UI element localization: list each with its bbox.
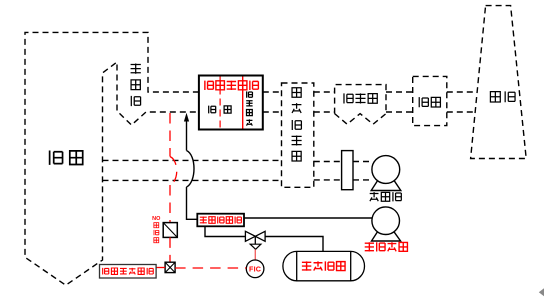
forced draft fan 送风机 <box>371 156 401 191</box>
wire combustion air line lower boiler->preheater <box>103 179 282 181</box>
label reactor-title-协同反应器 <box>205 81 259 90</box>
label dust-collector-text-除尘器 <box>344 93 377 103</box>
chimney 烟囱 dashed trapezoid <box>471 6 527 159</box>
boiler 锅炉 outline with economizer channel <box>25 32 199 285</box>
wire flue duct lower line reactor->preheater <box>263 111 282 113</box>
label reactor-text-硝 <box>224 106 231 113</box>
label desulfurizer-text-脱硫 <box>419 97 440 107</box>
reactor internal red dashed divider <box>219 77 221 129</box>
wire flue duct upper line preheater->dust-collector <box>314 91 335 93</box>
valve actuator triangle <box>250 244 261 249</box>
control valve <box>245 231 265 241</box>
wire red load-signal-box -> summer <box>156 267 165 269</box>
air preheater 空气预热器 dashed box <box>282 83 314 187</box>
label NOx-monitor-label-chars <box>154 223 159 243</box>
valve stem <box>254 236 256 244</box>
wire dilution fan -> mixer <box>244 217 373 219</box>
reactor 协同反应器 box <box>199 76 263 130</box>
label economizer-text-省煤器 <box>131 63 141 106</box>
wire flue duct lower line preheater->dust-collector <box>314 111 335 113</box>
signal summer square with X <box>165 262 175 272</box>
dilution fan 稀释风机 <box>372 207 401 241</box>
air damper rectangle <box>342 151 353 190</box>
wire flue duct upper line reactor->preheater <box>263 91 282 93</box>
label mixer-text-氨空混合器 <box>200 217 242 224</box>
wire air line preheater->damper upper <box>314 161 342 163</box>
wire flue duct lower line dust-collector->desulfurizer <box>386 111 413 113</box>
desulfurizer 脱硫 dashed box <box>413 76 447 125</box>
wire mixer outlet pipe up to duct with crossing hop <box>187 117 198 219</box>
wire valve -> tank riser <box>265 237 323 252</box>
wire flue duct upper line dust-collector->desulfurizer <box>386 91 413 93</box>
label fan-text-送风机 <box>370 192 402 201</box>
wire red summer -> FIC <box>175 267 246 269</box>
wire red monitor -> summer <box>169 237 171 262</box>
FIC flow controller circle <box>246 260 264 278</box>
wire air line damper->fan lower <box>353 179 373 181</box>
label tank-text-氨气储罐 <box>302 261 345 270</box>
label chimney-text-烟囱 <box>490 91 515 102</box>
label dilution-fan-text-稀释风机 <box>365 242 408 251</box>
wire mixer bottom port down <box>205 226 245 236</box>
svg-text:NO: NO <box>152 216 161 222</box>
boiler load signal 锅炉负载信号 box <box>100 265 157 279</box>
ammonia-air mixer 氨空混合器 box <box>197 214 244 227</box>
gray corner arrow <box>539 288 544 296</box>
wire flue duct upper line desulfurizer->chimney <box>447 91 477 93</box>
wire flue duct lower line desulfurizer->chimney <box>447 111 475 113</box>
reactor internal red solid divider <box>242 77 244 129</box>
wire red NOx sample line from duct down with hop <box>170 113 177 223</box>
label reactor-text-脱二噁英 <box>246 91 252 125</box>
svg-text:FIC: FIC <box>249 265 261 274</box>
label preheater-text-空气预热器 <box>292 88 302 161</box>
label boiler-text-锅炉 <box>50 151 83 165</box>
label load-signal-text-锅炉负载信号 <box>103 268 154 275</box>
dust collector 除尘器 dashed outline with two hoppers <box>335 85 386 125</box>
wire air line damper->fan upper <box>353 161 373 163</box>
wire air line preheater->damper lower <box>314 179 342 181</box>
ammonia storage tank 氨气储罐 <box>283 251 365 280</box>
arrow ammonia injection into flue duct <box>184 113 189 122</box>
wire combustion air line upper boiler->preheater <box>103 159 282 161</box>
label reactor-text-脱 <box>209 106 216 114</box>
wire red valve->FIC signal <box>254 250 256 261</box>
NOx monitor instrument square <box>163 223 177 238</box>
